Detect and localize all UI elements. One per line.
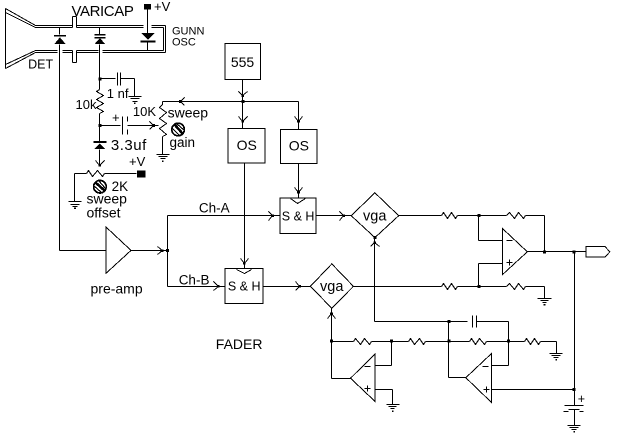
node B (sweep inject): [98, 124, 101, 127]
label S & H (S&H2): [228, 280, 261, 294]
svg-text:10k: 10k: [76, 97, 97, 112]
label Ch-A: [199, 200, 230, 215]
label DET: [28, 57, 53, 71]
arrow up into vga2: [328, 313, 336, 319]
detector diode D1 (DET): [54, 28, 66, 45]
arrow into sweep-gain wiper: [150, 122, 156, 130]
arrow into S&H1 trigger: [295, 188, 303, 194]
op-amp U3 (fader inverter): [351, 354, 375, 401]
horn antenna mouth (left edge): [5, 9, 7, 69]
wire pre-amp output: [131, 250, 168, 252]
wire C3 to ground: [574, 410, 576, 426]
resistor R7 (U2 feedback): [470, 339, 487, 345]
wire R6 to node: [426, 341, 449, 343]
wire DET to pre-amp input: [60, 250, 107, 252]
wire OS2 output down to S&H1: [298, 164, 300, 199]
node vga1 bottom vertex: [373, 236, 376, 239]
node U2 output net: [448, 340, 451, 343]
label 10k: [76, 97, 97, 112]
svg-text:+V: +V: [154, 0, 171, 14]
resistor R4 (plus to ground): [507, 284, 526, 290]
arrow into OS1: [239, 117, 248, 123]
wire pot bottom to ground: [162, 137, 164, 155]
waveguide closed right end (double line): [164, 26, 166, 53]
resistor R5 (U3 feedback): [354, 339, 372, 345]
box 555 timer: [225, 44, 260, 80]
wire C2 to minus corner: [477, 322, 509, 342]
label OS (OS2): [289, 137, 309, 153]
wire 2K left lead: [75, 174, 87, 202]
node U2 minus net: [507, 340, 510, 343]
potentiometer 10K sweep gain: [160, 105, 167, 137]
wire 3.3uf to sweep-gain wiper: [128, 125, 159, 127]
wire node A to 1nf cap: [100, 78, 116, 80]
node vga2 control takeoff: [330, 340, 333, 343]
resistor R1 (Ch-A input): [442, 213, 458, 219]
wire U2 plus input: [492, 389, 575, 391]
+V supply square (2K): [137, 170, 146, 177]
waveguide bottom wall inner line: [36, 50, 164, 52]
diode D4 (sweep clamp): [93, 126, 106, 150]
U1 minus sign: [507, 240, 513, 242]
node A (varicap bias): [98, 78, 101, 81]
vga1 diamond: [351, 193, 399, 238]
ground (U3 plus): [387, 405, 400, 412]
svg-text:OS: OS: [289, 137, 309, 153]
label S & H (S&H1): [282, 210, 315, 224]
U2 plus sign: [484, 387, 490, 393]
svg-text:1 nf: 1 nf: [107, 86, 129, 101]
ground (2K pot): [69, 202, 82, 210]
capacitor 3.3uf: [123, 117, 128, 135]
wire sweep distribution line: [163, 101, 299, 103]
label Ch-B: [179, 272, 210, 287]
label OS (OS1): [237, 137, 257, 153]
varicap diode D2: [95, 28, 106, 45]
U3 plus sign: [365, 386, 371, 392]
svg-text:DET: DET: [28, 57, 53, 71]
svg-text:GUNN: GUNN: [172, 26, 204, 38]
node 555/sweep junction: [241, 100, 244, 103]
wire R5 to R6: [372, 341, 409, 343]
wire S&H2 to vga2: [264, 286, 311, 288]
U1 plus sign: [507, 260, 513, 266]
svg-text:offset: offset: [87, 204, 121, 220]
arrow onto 2K wiper: [96, 161, 105, 167]
wire node A to 10k: [99, 79, 101, 90]
label FADER: [216, 336, 263, 352]
label 2K: [112, 179, 129, 194]
label gain: [170, 135, 196, 150]
wire D4 to 2K wiper arrow: [99, 150, 101, 166]
wire OS1 output down to S&H2: [244, 163, 246, 269]
label + (3.3uf polarity): [112, 110, 120, 125]
wire R3 to plus node: [458, 286, 507, 288]
wire vga2 output line: [354, 286, 442, 288]
svg-text:Ch-A: Ch-A: [199, 200, 230, 215]
waveguide bottom tuning slot: [73, 51, 77, 63]
wire U3 plus to ground: [375, 390, 393, 405]
wire vga1 to R1: [399, 215, 442, 217]
wire 555 output down: [242, 80, 244, 102]
wire Ch-A: [168, 215, 280, 217]
wire output tap vertical: [574, 252, 576, 390]
wire R4 to ground: [526, 287, 545, 299]
waveguide top tuning slot: [73, 17, 77, 28]
svg-text:Ch-B: Ch-B: [179, 272, 210, 287]
label OSC: [172, 37, 196, 49]
trigger chevron S&H2: [237, 270, 252, 274]
node pre-amp output split: [166, 249, 169, 252]
wire U1 plus input: [479, 264, 503, 287]
wire minus drop: [479, 216, 503, 241]
svg-text:vga: vga: [320, 279, 344, 295]
label + (C3 polarity): [578, 392, 585, 406]
wire U3 output: [332, 342, 351, 379]
op-amp U1 (output difference amp): [503, 229, 528, 275]
wire R8 to ground: [541, 342, 557, 354]
label vga (vga2): [320, 279, 344, 295]
capacitor C3 (electrolytic): [564, 406, 584, 412]
wire node B to 3.3uf: [100, 125, 121, 127]
wire 2K right lead to +V: [105, 173, 137, 175]
wire U1 output: [528, 251, 586, 253]
+V supply square (Gunn): [144, 4, 151, 9]
capacitor 1nf: [118, 73, 121, 86]
wire U2 minus input: [492, 342, 509, 366]
svg-text:sweep: sweep: [168, 105, 209, 121]
label sweep (offset): [87, 190, 128, 206]
resistor R2 (U1 feedback): [507, 213, 526, 219]
wire fader resistor line left end: [332, 341, 354, 343]
horn antenna upper wall (double line): [6, 9, 36, 28]
wire channel split vertical: [167, 216, 169, 287]
arrow into vga1: [340, 212, 346, 221]
ground (sweep gain pot): [157, 155, 170, 162]
svg-text:555: 555: [231, 54, 255, 70]
capacitor C2 (fader feedback): [473, 316, 477, 328]
label +V (Gunn): [154, 0, 171, 14]
ground (1nf): [129, 97, 142, 105]
svg-text:S & H: S & H: [228, 280, 261, 294]
wire vga1 control drop: [374, 238, 376, 322]
wire fader cap line: [375, 321, 468, 323]
arrow into vga2: [296, 282, 302, 291]
svg-text:3.3uf: 3.3uf: [111, 137, 147, 154]
horn antenna lower wall (double line): [6, 51, 36, 69]
output connector tag: [586, 247, 610, 257]
arrow up into vga1: [371, 241, 380, 246]
wire R7 wires: [449, 341, 525, 343]
vga2 diamond: [310, 264, 353, 308]
arrow toward sweep gain pot: [179, 98, 184, 106]
arrow on pre-amp output: [158, 247, 164, 255]
resistor R8 (minus to ground): [525, 339, 541, 345]
node fader line / U2 out: [448, 320, 451, 323]
svg-text:gain: gain: [170, 135, 196, 150]
U2 minus sign: [483, 366, 489, 368]
node feedback/output: [543, 250, 546, 253]
svg-text:pre-amp: pre-amp: [91, 280, 143, 296]
label +V (2K): [129, 154, 146, 169]
wire varicap down to node A: [99, 45, 101, 79]
resistor R3 (Ch-B input): [442, 284, 458, 290]
node U2 plus / cap: [573, 388, 576, 391]
wire U3 minus input: [375, 342, 392, 366]
Gunn diode D3: [141, 33, 156, 50]
label offset: [87, 204, 121, 220]
arrow on 555 output: [239, 92, 248, 98]
wire tap to C3: [574, 390, 576, 406]
resistor 10k: [97, 90, 104, 114]
arrow into S&H2 input: [214, 282, 220, 291]
ground (C3): [568, 426, 581, 433]
box S&H2 (sample and hold): [225, 268, 263, 303]
node output tap: [573, 250, 576, 253]
label 555: [231, 54, 255, 70]
svg-text:VARICAP: VARICAP: [72, 3, 134, 20]
potentiometer 2K (horizontal): [87, 171, 105, 177]
label 10K: [133, 104, 156, 119]
waveguide bottom wall outer line: [36, 52, 166, 54]
wire sweep line to pot top: [162, 102, 164, 105]
U3 minus sign: [365, 366, 371, 368]
trimmer circle (sweep gain): [172, 123, 185, 136]
box OS1 (one-shot): [228, 129, 265, 163]
wire vga2 control rise: [331, 309, 333, 342]
label GUNN: [172, 26, 204, 38]
trimmer circle (sweep offset): [94, 180, 107, 193]
svg-text:+: +: [578, 392, 585, 406]
wire DET diode down to pre-amp: [59, 45, 61, 251]
wire S&H1 to vga1: [317, 215, 352, 217]
waveguide top wall inner line: [36, 27, 164, 29]
wire U2 output: [449, 322, 466, 378]
wire R2 to output corner: [526, 216, 545, 252]
arrow into S&H1 input: [269, 212, 274, 221]
node U1 minus input net: [478, 214, 481, 217]
label vga (vga1): [363, 208, 387, 224]
ground (R4): [538, 299, 552, 306]
op-amp U2 (fader integrator): [466, 354, 492, 403]
svg-text:S & H: S & H: [282, 210, 315, 224]
label 1 nf: [107, 86, 129, 101]
svg-text:+V: +V: [129, 154, 146, 169]
node U3 minus net: [390, 340, 393, 343]
wire down into OS1: [242, 102, 244, 129]
wire 10k to node B: [99, 114, 101, 126]
wire R1 to minus node: [458, 215, 507, 217]
box S&H1 (sample and hold): [280, 198, 316, 233]
wire +V to Gunn diode: [147, 10, 149, 34]
label pre-amp: [91, 280, 143, 296]
wire 1nf to ground: [121, 79, 135, 97]
svg-text:10K: 10K: [133, 104, 156, 119]
waveguide top wall outer line: [36, 25, 166, 27]
ground (R8): [550, 354, 563, 361]
svg-text:FADER: FADER: [216, 336, 263, 352]
label 3.3uf: [111, 137, 147, 154]
op-amp pre-amp (triangle): [106, 227, 131, 273]
svg-text:vga: vga: [363, 208, 387, 224]
box OS2 (one-shot): [280, 129, 317, 163]
arrow into S&H2 trigger: [241, 259, 249, 265]
resistor R6 (U3 input): [409, 339, 426, 345]
svg-text:+: +: [112, 110, 120, 125]
wire Ch-B: [168, 286, 226, 288]
node U1 plus input net: [478, 285, 481, 288]
arrow into OS2: [295, 117, 303, 123]
trigger chevron S&H1: [291, 199, 306, 204]
svg-text:OS: OS: [237, 137, 257, 153]
label VARICAP: [72, 3, 134, 20]
label sweep (gain): [168, 105, 209, 121]
wire down into OS2: [298, 102, 300, 130]
svg-text:OSC: OSC: [172, 37, 196, 49]
